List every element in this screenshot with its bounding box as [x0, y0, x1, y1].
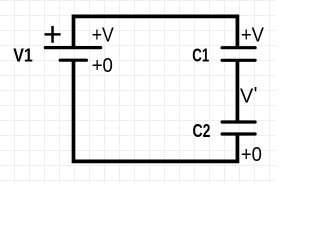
capacitor C2 bottom plate	[222, 132, 255, 135]
svg-text:+0: +0	[241, 144, 262, 166]
wire C2 bottom, across bottom, up to battery - terminal	[74, 61, 238, 161]
capacitor C2 top plate	[222, 120, 255, 123]
svg-text:C2: C2	[193, 121, 211, 141]
svg-text:': '	[254, 84, 258, 106]
battery V1 short (-) plate	[60, 59, 86, 62]
svg-text:+V: +V	[241, 24, 265, 46]
wire C1 bottom to C2 top	[236, 62, 240, 121]
svg-text:C1: C1	[192, 46, 209, 66]
battery V1 plus sign	[45, 26, 61, 43]
svg-text:+0: +0	[92, 55, 113, 77]
wire battery + terminal up, across top, down to C1 top	[74, 16, 238, 46]
svg-text:V1: V1	[13, 46, 33, 66]
grid background	[0, 0, 276, 183]
battery V1 long (+) plate	[45, 46, 100, 49]
svg-text:+V: +V	[92, 24, 115, 46]
capacitor C1 bottom plate	[222, 59, 255, 62]
capacitor C1 top plate	[222, 46, 255, 49]
svg-text:V: V	[240, 85, 254, 107]
